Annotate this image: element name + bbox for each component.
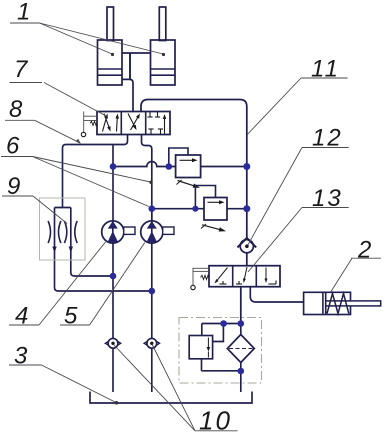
svg-text:6: 6 [6, 133, 20, 160]
svg-text:2: 2 [357, 237, 371, 264]
svg-text:4: 4 [15, 303, 28, 330]
svg-text:8: 8 [9, 96, 23, 123]
svg-text:7: 7 [14, 56, 29, 83]
svg-text:1: 1 [17, 0, 30, 26]
svg-text:5: 5 [64, 303, 78, 330]
svg-text:3: 3 [14, 343, 28, 370]
